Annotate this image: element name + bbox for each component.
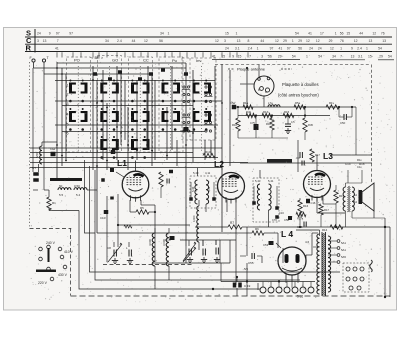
svg-text:Plaquette à douilles: Plaquette à douilles <box>282 82 319 87</box>
svg-text:44: 44 <box>260 39 264 43</box>
svg-text:5,43: 5,43 <box>255 179 261 183</box>
capacitor C1N <box>184 127 189 131</box>
power transformer core hatch <box>322 233 325 295</box>
top dashed border <box>215 64 370 66</box>
svg-text:C70: C70 <box>272 218 277 222</box>
svg-text:5,41: 5,41 <box>268 179 274 183</box>
capacitor C1R <box>104 210 109 214</box>
svg-text:34: 34 <box>332 55 336 59</box>
right vertical x390 <box>389 227 391 297</box>
svg-text:29: 29 <box>283 39 287 43</box>
osc coil 3000 <box>166 233 169 266</box>
svg-text:R15: R15 <box>284 110 290 114</box>
ferrite bar antenna <box>50 178 82 181</box>
svg-text:4,11: 4,11 <box>205 171 211 175</box>
svg-text:C16: C16 <box>311 201 316 205</box>
svg-text:C1N: C1N <box>180 129 186 133</box>
matrix horizontal wires <box>57 62 186 64</box>
dashed corner bottom left <box>30 228 72 230</box>
svg-text:29: 29 <box>329 39 333 43</box>
contact pairs column CC <box>162 83 165 94</box>
resistor R15a <box>283 113 294 117</box>
svg-text:12: 12 <box>372 32 376 36</box>
rectifier pins <box>346 267 350 271</box>
matrix vertical wires <box>56 62 58 178</box>
svg-text:97: 97 <box>56 32 60 36</box>
svg-text:5/9: 5/9 <box>244 267 248 271</box>
chain junction dots <box>237 106 239 108</box>
svg-text:R1: R1 <box>52 201 56 205</box>
resistor R10 <box>203 153 215 157</box>
switch group PO <box>67 57 91 152</box>
svg-text:29: 29 <box>278 55 282 59</box>
svg-text:9: 9 <box>351 46 353 50</box>
svg-text:15: 15 <box>238 55 242 59</box>
svg-text:(côté antres bouchon): (côté antres bouchon) <box>278 93 319 98</box>
resistor R1a <box>243 105 253 109</box>
svg-text:Plaque antenne: Plaque antenne <box>237 67 266 72</box>
svg-text:76: 76 <box>381 32 385 36</box>
svg-text:R14: R14 <box>322 228 328 232</box>
junction dots bottom <box>299 226 301 228</box>
svg-text:34: 34 <box>105 39 109 43</box>
voltage selector pins <box>39 247 43 251</box>
cap C55 <box>251 253 253 259</box>
svg-text:54: 54 <box>292 55 296 59</box>
cap C5a <box>232 105 237 110</box>
selector bar horizontal <box>36 270 56 273</box>
coil 5/60 <box>40 146 42 164</box>
cap C55b <box>299 152 301 158</box>
switch group PU INV bank <box>182 58 216 140</box>
cap C56 <box>288 216 292 220</box>
svg-text:54: 54 <box>378 46 382 50</box>
svg-text:o: o <box>265 90 267 94</box>
svg-text:3.1: 3.1 <box>235 46 240 50</box>
socket top lead <box>258 65 260 78</box>
trimmer arrow <box>183 248 196 262</box>
svg-text:R17: R17 <box>324 208 329 212</box>
svg-text:1: 1 <box>67 84 69 88</box>
header vertical bar <box>34 29 36 53</box>
svg-text:C14: C14 <box>345 162 351 166</box>
svg-text:5,40: 5,40 <box>193 171 199 175</box>
right dashed border <box>371 65 373 184</box>
svg-text:9: 9 <box>49 32 51 36</box>
svg-text:41: 41 <box>308 32 312 36</box>
capacitor C11 <box>202 249 204 256</box>
svg-text:60: 60 <box>59 184 63 188</box>
svg-text:R16: R16 <box>303 204 309 208</box>
svg-text:9: 9 <box>232 55 234 59</box>
svg-text:R16: R16 <box>232 123 237 127</box>
svg-text:34: 34 <box>160 32 164 36</box>
resistor R16 vertical <box>298 200 302 213</box>
svg-text:3: 3 <box>224 39 226 43</box>
terminal F <box>32 59 35 62</box>
svg-text:R5a: R5a <box>295 101 301 105</box>
svg-text:8: 8 <box>247 39 249 43</box>
power transformer core <box>321 232 323 296</box>
contact pairs column GO <box>131 83 134 94</box>
svg-text:44: 44 <box>359 32 363 36</box>
svg-text:C75: C75 <box>250 121 255 125</box>
cap C5F <box>343 114 345 120</box>
svg-text:1: 1 <box>366 46 368 50</box>
resistor R1v <box>326 105 339 109</box>
chain wire y107 <box>232 106 356 108</box>
svg-text:5/60: 5/60 <box>35 152 39 158</box>
wire to dashed border <box>355 107 357 155</box>
contact pairs column INV <box>193 83 196 94</box>
svg-text:C16: C16 <box>279 211 284 215</box>
IF T2 secondary <box>269 184 272 210</box>
tuning gang dashed link <box>103 264 192 266</box>
svg-text:5 L6: 5 L6 <box>297 295 303 299</box>
resistor R1 <box>47 197 51 210</box>
svg-text:29: 29 <box>298 39 302 43</box>
coil L8 vertical <box>197 206 199 242</box>
svg-text:R45: R45 <box>308 123 313 127</box>
cathode resistor R5 <box>136 210 149 214</box>
svg-text:R5: R5 <box>140 206 144 210</box>
speaker <box>359 190 363 204</box>
svg-text:C 19: C 19 <box>244 284 251 288</box>
resistor R14 <box>330 225 343 229</box>
svg-text:13: 13 <box>43 39 47 43</box>
tube L2 <box>218 173 245 200</box>
plaque antenne label <box>228 68 234 70</box>
AVC loop inner <box>90 166 341 272</box>
L3 anode wire <box>316 198 318 214</box>
tube L1 <box>122 171 149 198</box>
svg-text:29: 29 <box>379 55 383 59</box>
speaker wires <box>346 182 363 184</box>
svg-text:54: 54 <box>295 32 299 36</box>
grid cap C53 <box>269 241 274 245</box>
svg-text:C5F: C5F <box>340 121 346 125</box>
svg-text:3: 3 <box>37 39 39 43</box>
left wires <box>32 74 34 172</box>
switch group CC <box>159 57 183 152</box>
svg-text:220 V: 220 V <box>38 281 48 285</box>
svg-text:4: 4 <box>67 113 69 117</box>
AVC loop outer <box>79 211 260 290</box>
power transformer primary <box>317 234 320 294</box>
svg-text:R1S: R1S <box>263 110 269 114</box>
svg-text:1: 1 <box>335 32 337 36</box>
heater bus wire <box>221 281 315 283</box>
L1 wires <box>106 196 108 262</box>
resistor R17b <box>319 204 323 215</box>
svg-text:6: 6 <box>67 132 69 136</box>
svg-text:5.4: 5.4 <box>76 193 81 197</box>
resistor R45 <box>303 118 307 132</box>
switch group BE <box>98 56 122 153</box>
ruled line S <box>25 36 392 38</box>
svg-text:5: 5 <box>67 123 69 127</box>
cap C13 <box>301 161 303 166</box>
capacitor C1u <box>111 150 116 154</box>
svg-text:13: 13 <box>382 39 386 43</box>
svg-text:430 V: 430 V <box>58 273 68 277</box>
svg-text:15: 15 <box>368 55 372 59</box>
capacitor C1b <box>170 236 175 240</box>
AVC loop 4 <box>95 170 300 280</box>
svg-text:97: 97 <box>69 32 73 36</box>
cap C4b <box>303 222 305 227</box>
L2 wires <box>221 160 223 170</box>
tube pin circles <box>260 287 266 293</box>
svg-text:7: 7 <box>249 55 251 59</box>
cap near L1 <box>166 179 168 184</box>
resistor R6 <box>252 231 264 235</box>
svg-text:54: 54 <box>388 55 392 59</box>
contact pairs column PO <box>69 83 72 94</box>
svg-text:< BE >: < BE > <box>91 55 104 60</box>
ruled line 4 partial <box>212 59 300 61</box>
svg-text:97: 97 <box>270 46 274 50</box>
long feedback wire <box>97 232 236 234</box>
capacitor C19 <box>233 283 237 288</box>
cap C16 under L3 <box>306 199 310 204</box>
svg-text:2.4: 2.4 <box>117 39 122 43</box>
svg-text:1: 1 <box>257 46 259 50</box>
resistor R4b <box>246 113 256 117</box>
svg-text:R6: R6 <box>255 227 259 231</box>
svg-text:C8: C8 <box>107 246 111 250</box>
IF T1 primary <box>195 180 198 204</box>
contact pairs column BE <box>100 83 103 94</box>
svg-text:41: 41 <box>55 46 59 50</box>
resistor R1S <box>262 113 272 117</box>
svg-text:13: 13 <box>237 39 241 43</box>
variable capacitor C8 <box>113 250 115 257</box>
svg-text:12: 12 <box>354 39 358 43</box>
pin leads up <box>262 282 264 288</box>
svg-text:C5a: C5a <box>230 101 235 105</box>
squiggle mark <box>124 225 132 228</box>
osc coil 60 5.5 <box>58 188 71 190</box>
svg-text:L 4: L 4 <box>281 229 293 239</box>
PU INV bank contact circles <box>183 86 185 88</box>
svg-text:1: 1 <box>306 55 308 59</box>
svg-text:R7: R7 <box>230 221 234 225</box>
svg-text:7: 7 <box>57 39 59 43</box>
svg-text:L1: L1 <box>117 158 127 168</box>
svg-text:15: 15 <box>225 32 229 36</box>
scan noise speckle <box>27 54 395 303</box>
svg-text:CC: CC <box>143 58 149 63</box>
IF T2 trim caps <box>252 201 256 205</box>
svg-text:12: 12 <box>215 39 219 43</box>
svg-text:PO: PO <box>74 58 80 63</box>
svg-text:5A1: 5A1 <box>341 248 346 252</box>
svg-text:5,10: 5,10 <box>207 186 211 192</box>
vertical x247 <box>246 227 248 233</box>
svg-text:15: 15 <box>346 32 350 36</box>
L4 cathode parts <box>285 280 287 283</box>
junction dot x213 <box>212 288 214 290</box>
svg-text:41: 41 <box>278 46 282 50</box>
mid-bottom horizontals <box>152 262 230 264</box>
svg-text:12: 12 <box>306 39 310 43</box>
svg-text:Inv.: Inv. <box>196 58 202 63</box>
svg-text:3: 3 <box>261 55 263 59</box>
terminal T <box>42 59 45 62</box>
svg-text:12: 12 <box>330 46 334 50</box>
svg-text:1: 1 <box>340 46 342 50</box>
resistor R10 chain <box>270 118 274 130</box>
vertical wires to bottom <box>219 240 221 263</box>
svg-text:1: 1 <box>292 39 294 43</box>
svg-text:54: 54 <box>318 55 322 59</box>
wire y227 bottom bus <box>253 226 390 228</box>
svg-text:1: 1 <box>235 32 237 36</box>
resistor R5a <box>294 105 305 109</box>
IF T1 secondary <box>206 180 209 204</box>
svg-text:7: 7 <box>340 55 342 59</box>
svg-text:C56: C56 <box>284 218 289 222</box>
svg-text:24: 24 <box>318 46 322 50</box>
socket feed wires <box>246 68 248 107</box>
wire from terminals <box>33 63 35 69</box>
svg-text:13: 13 <box>369 39 373 43</box>
antenna socket <box>254 76 274 96</box>
junction dots bus <box>246 280 248 282</box>
brace <box>370 260 373 272</box>
svg-text:L7a: L7a <box>268 101 273 105</box>
switch group GO <box>129 57 153 152</box>
svg-text:56: 56 <box>159 39 163 43</box>
output transformer <box>343 187 345 211</box>
ruled line R <box>25 51 392 53</box>
svg-text:R10: R10 <box>205 150 211 154</box>
svg-text:3.1: 3.1 <box>358 55 363 59</box>
matrix junction dots <box>56 67 58 69</box>
L1 top cap wire <box>135 161 137 172</box>
matrix black blobs <box>93 72 97 76</box>
bus feed verticals <box>220 263 222 282</box>
power transformer secondary <box>328 236 331 292</box>
resistor R16 chain <box>236 118 240 131</box>
svg-text:44: 44 <box>132 39 136 43</box>
svg-text:12: 12 <box>275 39 279 43</box>
left dashed border <box>29 62 31 229</box>
resistor R7 <box>228 225 242 229</box>
L3 wires <box>297 140 299 172</box>
osc coil 0.50 5.4 <box>74 188 87 190</box>
svg-text:4,000: 4,000 <box>192 215 196 222</box>
wire y210 corner <box>48 208 50 211</box>
svg-text:3,000: 3,000 <box>162 239 166 246</box>
chain wire y115.5 <box>238 115 330 117</box>
cap C75 <box>254 124 259 130</box>
selector bar vertical <box>48 248 50 262</box>
svg-text:GO: GO <box>112 58 118 63</box>
svg-text:56: 56 <box>268 55 272 59</box>
black marks L1 pins <box>101 178 105 182</box>
PU bank link lines <box>182 89 190 91</box>
resistor R17a <box>296 212 306 216</box>
grid cap L1 <box>110 168 114 172</box>
svg-text:5A1: 5A1 <box>341 241 346 245</box>
wafer axes dash <box>77 66 79 152</box>
svg-text:C1e: C1e <box>50 147 56 151</box>
svg-text:24: 24 <box>37 32 41 36</box>
AVC loop mid <box>85 160 96 233</box>
svg-text:R4b: R4b <box>246 110 252 114</box>
L4 wires <box>277 233 279 240</box>
svg-text:R17: R17 <box>315 153 320 157</box>
resistor right of L1 <box>159 172 163 187</box>
cap with ground <box>285 123 291 125</box>
resistor R17 <box>310 149 314 162</box>
svg-text:17: 17 <box>320 32 324 36</box>
wire y240 <box>180 239 236 241</box>
hatched coil bar <box>267 159 292 163</box>
osc coil 4000 <box>152 233 155 266</box>
svg-text:R10: R10 <box>266 122 271 126</box>
header tick wires <box>56 52 58 57</box>
svg-text:56: 56 <box>298 46 302 50</box>
svg-text:5.5: 5.5 <box>59 193 64 197</box>
tube L3 <box>304 171 331 198</box>
capacitor C9 <box>128 250 130 257</box>
padder capacitor <box>51 152 56 157</box>
bottom chassis dash line <box>71 295 391 297</box>
svg-text:L3: L3 <box>323 151 333 161</box>
IF transformer T1 box <box>190 176 216 208</box>
svg-text:C1R: C1R <box>100 216 106 220</box>
svg-text:12: 12 <box>144 39 148 43</box>
svg-text:C55: C55 <box>248 261 254 265</box>
capacitor C12 <box>215 248 217 255</box>
svg-text:R1a: R1a <box>243 101 249 105</box>
svg-text:b: b <box>258 88 260 92</box>
transformer taps <box>328 240 337 242</box>
svg-text:24: 24 <box>225 46 229 50</box>
svg-text:R1v: R1v <box>329 101 335 105</box>
IF transformer T2 box <box>253 178 279 222</box>
variable capacitor C10 <box>188 249 190 256</box>
rectifier socket box <box>343 263 369 292</box>
coil L7a <box>268 105 280 107</box>
chain lower wire <box>238 137 288 139</box>
transformer top lead <box>319 230 321 236</box>
IF T1 trim caps <box>189 197 193 201</box>
svg-text:5,40: 5,40 <box>191 186 195 192</box>
svg-text:97: 97 <box>287 46 291 50</box>
svg-text:2.4: 2.4 <box>357 46 362 50</box>
svg-text:1: 1 <box>167 32 169 36</box>
svg-text:12: 12 <box>316 39 320 43</box>
svg-text:R17a: R17a <box>297 217 304 221</box>
svg-text:24: 24 <box>309 46 313 50</box>
svg-text:2.4: 2.4 <box>248 46 253 50</box>
ruled line C <box>25 43 392 45</box>
svg-text:L2: L2 <box>214 159 224 169</box>
svg-text:5A5: 5A5 <box>341 255 346 259</box>
tube L4 <box>278 247 306 275</box>
svg-text:R1b: R1b <box>359 162 365 166</box>
IF T2 primary <box>257 184 260 210</box>
svg-text:240 V: 240 V <box>46 241 56 245</box>
svg-text:410 V: 410 V <box>64 250 74 254</box>
svg-text:56: 56 <box>340 32 344 36</box>
svg-text:C53: C53 <box>263 243 269 247</box>
svg-text:76: 76 <box>340 39 344 43</box>
